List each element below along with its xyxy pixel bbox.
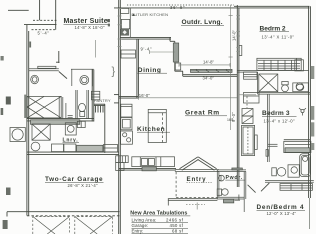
svg-text:5'-4": 5'-4" xyxy=(38,31,50,36)
svg-text:68 sf: 68 sf xyxy=(172,229,184,234)
den door swings xyxy=(248,185,256,193)
svg-text:Entry: Entry xyxy=(187,176,207,183)
left edge tiny mark A xyxy=(1,108,4,115)
svg-text:34'-0": 34'-0" xyxy=(203,76,215,81)
bath3 vanity xyxy=(288,165,299,177)
wall garage bottom xyxy=(7,211,120,213)
powder sink xyxy=(219,175,225,181)
left edge tiny mark A2 xyxy=(6,97,11,105)
wire top dashed eave line xyxy=(127,4,234,6)
hall cabinet boxes with diagonals xyxy=(242,109,253,117)
bath2 wall below closet xyxy=(237,70,308,72)
bedroom2 circle below closet xyxy=(296,83,303,90)
svg-text:450 sf: 450 sf xyxy=(170,223,184,228)
porch wall remnant near table xyxy=(196,203,198,210)
kitchen south counter with sink xyxy=(132,157,175,167)
dim line 16-0 xyxy=(138,97,237,99)
wall center vertical master/kitchen/garage east xyxy=(118,0,120,234)
laundry dryer xyxy=(64,144,76,152)
kitchen dishwasher hatch xyxy=(142,167,156,171)
master bath door swing xyxy=(59,72,67,79)
powder south wall xyxy=(217,196,244,198)
wall butler kitchen south double xyxy=(120,36,171,38)
master closet door leaf xyxy=(95,40,97,58)
master bath right vanity xyxy=(71,68,94,70)
node dim 36-8 xyxy=(0,0,1,1)
svg-text:16'-0": 16'-0" xyxy=(139,93,151,98)
bath3 tub xyxy=(300,154,311,177)
svg-text:}: } xyxy=(112,66,116,78)
svg-text:9'-4": 9'-4" xyxy=(141,46,153,51)
svg-text:Bedrm 3: Bedrm 3 xyxy=(262,110,290,117)
wall master bath south double xyxy=(27,118,94,120)
outdoor living window west xyxy=(173,43,178,62)
svg-text:Kitchen: Kitchen xyxy=(137,126,165,133)
kitchen island xyxy=(148,109,166,142)
left wall tiny dim mark xyxy=(29,42,31,48)
wall kitchen south double xyxy=(119,167,176,169)
laundry counter hatch xyxy=(77,145,103,151)
dim line outdoor living 14-8 xyxy=(179,64,230,66)
ticks on center wall xyxy=(118,7,122,9)
svg-text:9'-0": 9'-0" xyxy=(231,112,236,123)
wall dining west double xyxy=(136,39,138,98)
svg-text:14'-0": 14'-0" xyxy=(232,30,237,42)
wall bedroom2 top double xyxy=(234,5,310,7)
wall pantry west double xyxy=(91,70,93,122)
butler kitchen counter xyxy=(129,8,131,37)
garage door right dashed panel xyxy=(75,217,113,235)
laundry upper cabinet hatch xyxy=(31,120,80,125)
bath2 west wall xyxy=(257,72,259,94)
kitchen ovens xyxy=(121,118,132,130)
wall bottom-left yard tick xyxy=(6,212,8,217)
wall great room east double xyxy=(236,5,238,187)
porch south wall xyxy=(168,198,218,200)
scribble right of master suite label xyxy=(107,19,110,22)
master shower bench strips xyxy=(58,96,60,119)
wall left exterior double xyxy=(26,25,28,216)
mud counter box xyxy=(104,145,118,153)
outdoor living sliding door hatch xyxy=(191,69,233,72)
den west wall stub xyxy=(238,195,240,201)
entry dashed floor xyxy=(175,172,177,198)
left edge tiny mark top xyxy=(1,56,4,61)
ticks on bedroom2 west wall xyxy=(236,15,240,17)
svg-text:14'-8" X 18'-0": 14'-8" X 18'-0" xyxy=(75,25,106,30)
svg-text:BUTLER KITCHEN: BUTLER KITCHEN xyxy=(132,12,169,17)
dim leader dining 9-4 xyxy=(149,51,174,53)
garage door left dashed panel xyxy=(33,217,70,235)
wire top solid wall xyxy=(114,7,238,9)
svg-text:13'-4" x 12'-0": 13'-4" x 12'-0" xyxy=(264,119,296,124)
bath3 top wall xyxy=(268,143,278,145)
bedroom2 west wall door jamb box xyxy=(239,46,242,56)
master bath linen box xyxy=(91,91,99,100)
wall master closet stub xyxy=(58,51,60,63)
closet hatch above powder xyxy=(232,168,242,170)
svg-text:Two-Car Garage: Two-Car Garage xyxy=(45,176,103,183)
laundry X cabinet xyxy=(32,124,50,140)
master shower gray wall xyxy=(24,95,27,118)
den north wall double xyxy=(265,179,314,181)
pantry shelf dividers xyxy=(95,106,97,113)
property tick top-left xyxy=(8,9,29,11)
butler corridor counter xyxy=(121,50,136,58)
left edge tiny mark B xyxy=(6,188,11,196)
svg-text:14'-8": 14'-8" xyxy=(203,59,215,64)
bedroom2 closet xyxy=(257,58,301,70)
bedroom3 west wall double xyxy=(267,94,269,162)
svg-text:13'-4" X 11'-0": 13'-4" X 11'-0" xyxy=(262,35,295,40)
laundry water heater xyxy=(31,142,40,151)
bedroom2 nightstand xyxy=(295,60,304,71)
hall closet top hatched xyxy=(244,72,258,79)
svg-text:Entry:: Entry: xyxy=(132,229,144,234)
master WC toilet xyxy=(79,103,86,111)
hall cabinet xyxy=(244,93,260,104)
wall bath2 south double xyxy=(258,91,311,93)
bedroom3 door jamb xyxy=(266,150,268,157)
svg-text:Great Rm: Great Rm xyxy=(185,109,220,116)
kitchen range xyxy=(121,131,133,144)
powder toilet xyxy=(217,189,221,195)
bedroom2 window bars right xyxy=(311,66,314,79)
hall south opening lines xyxy=(239,94,256,96)
wall great room north double xyxy=(183,74,237,76)
wall right exterior double xyxy=(308,6,310,198)
left edge tiny mark C xyxy=(3,220,8,229)
svg-text:26'-8" X 21'-4": 26'-8" X 21'-4" xyxy=(68,183,99,188)
dim vertical line right of great room xyxy=(230,5,232,130)
master bath vanity north counter xyxy=(38,66,56,68)
bedroom3 closet box hatched xyxy=(284,141,311,152)
powder east wall xyxy=(243,172,245,213)
wall laundry south / garage north double xyxy=(27,151,119,153)
wall outdoor living west jog xyxy=(169,37,171,41)
pantry shelf xyxy=(94,103,105,105)
master bath left sink xyxy=(31,75,39,83)
bedroom3 closet wall xyxy=(284,139,311,141)
svg-text:PANTRY: PANTRY xyxy=(94,99,111,103)
bath2 vanity xyxy=(293,83,309,92)
bedroom3 fan icon xyxy=(301,109,304,112)
powder west wall xyxy=(216,170,218,199)
svg-text:Bedrm 2: Bedrm 2 xyxy=(260,25,287,32)
master WC walls xyxy=(75,90,77,119)
den closet hatch xyxy=(280,184,312,191)
bath2 shower X box xyxy=(259,74,278,92)
bath2 toilet xyxy=(282,82,288,85)
laundry washer xyxy=(52,144,64,152)
svg-text:36'-8": 36'-8" xyxy=(170,5,185,10)
entry tall closet by great room xyxy=(242,125,255,155)
laundry small boxes xyxy=(77,121,85,127)
svg-text:Dining: Dining xyxy=(138,67,162,74)
wall kitchen north double xyxy=(119,95,139,97)
powder north wall xyxy=(217,169,246,171)
entry base wall xyxy=(175,169,219,171)
svg-text:12'-0" X 13'-4": 12'-0" X 13'-4" xyxy=(267,211,297,216)
svg-text:Garage:: Garage: xyxy=(132,223,149,228)
master suite top notch lines xyxy=(33,19,57,21)
svg-text:Living Area:: Living Area: xyxy=(132,217,157,222)
AC pad outside xyxy=(10,128,25,142)
pantry door jambs xyxy=(114,94,119,96)
svg-text:2466 sf: 2466 sf xyxy=(166,217,184,222)
garage steps xyxy=(116,156,129,163)
powder bench hatch xyxy=(224,199,234,203)
laundry sink cabinet xyxy=(65,123,76,135)
bath3 toilet xyxy=(272,168,277,176)
wall mud hall west xyxy=(104,104,106,153)
entry gable roof xyxy=(180,157,217,170)
kitchen refrigerator xyxy=(121,104,132,117)
master shower box with X xyxy=(27,96,61,118)
